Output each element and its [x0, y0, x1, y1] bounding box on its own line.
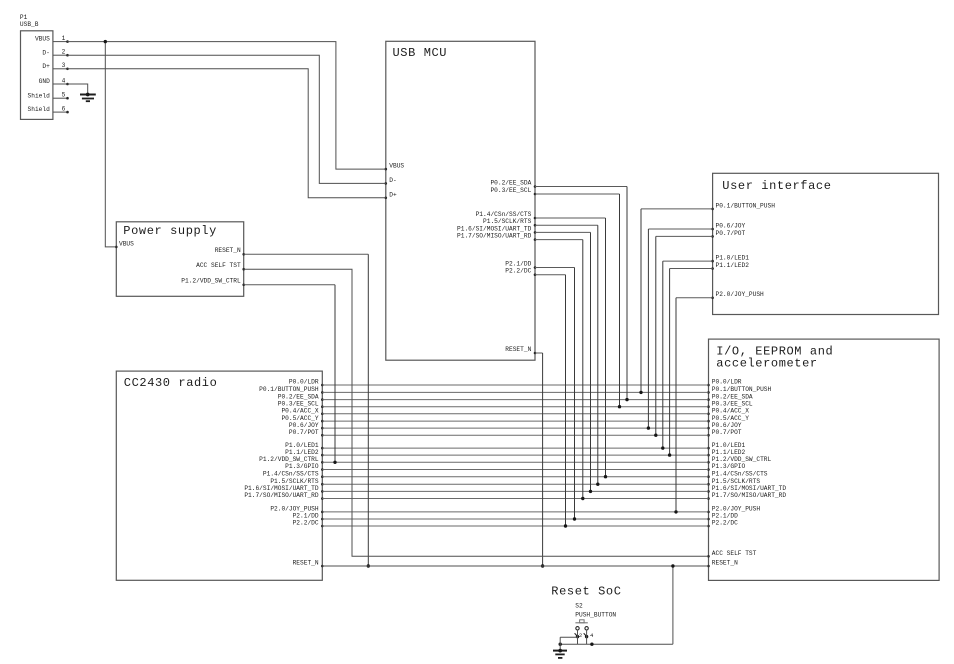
svg-text:P0.3/EE_SCL: P0.3/EE_SCL [278, 400, 319, 407]
wire P1.2/VDD_SW_CTRL from Power supply down to bus [244, 285, 337, 464]
svg-text:ACC SELF TST: ACC SELF TST [712, 550, 757, 557]
svg-text:P0.3/EE_SCL: P0.3/EE_SCL [490, 187, 531, 194]
pin P1.4/CSn/SS/CTS of CC2430 [263, 470, 324, 478]
svg-text:P0.4/ACC_X: P0.4/ACC_X [712, 408, 749, 415]
svg-text:accelerometer: accelerometer [716, 357, 817, 371]
pin P1.5/SCLK/RTS of CC2430 [270, 478, 323, 486]
svg-text:RESET_N: RESET_N [712, 560, 738, 567]
pin P0.2/EE_SDA of USB MCU [490, 179, 536, 187]
svg-text:D+: D+ [389, 191, 397, 198]
pin P1.7/SO/MISO/UART_RD of I/O block [707, 492, 786, 500]
pin P1.6/SI/MOSI/UART_TD of USB MCU [457, 225, 536, 233]
svg-text:Shield: Shield [28, 92, 51, 99]
wire P1.7/SO/MISO/UART_RD from USB MCU down to bus [535, 240, 585, 501]
wire P0.2/EE_SDA from USB MCU down to bus [535, 187, 629, 402]
pin D+ of USB MCU [385, 191, 398, 199]
ground symbol at push button [553, 649, 567, 658]
svg-text:P1.3/GPIO: P1.3/GPIO [712, 463, 746, 470]
svg-text:P0.7/POT: P0.7/POT [716, 230, 746, 237]
pin 3 D+ of P1 [42, 62, 68, 70]
pin P2.1/DD of USB MCU [505, 260, 536, 268]
svg-text:P0.6/JOY: P0.6/JOY [712, 422, 742, 429]
wire P2.0/JOY_PUSH from User interface down to bus [674, 298, 712, 514]
pin 4 GND of P1 [39, 77, 69, 85]
wire P1.5/SCLK/RTS from USB MCU down to bus [535, 225, 600, 486]
pin P1.2/VDD_SW_CTRL of CC2430 [259, 456, 323, 464]
pin P0.4/ACC_X of I/O block [707, 408, 749, 416]
svg-text:USB_B: USB_B [20, 21, 39, 28]
pin P0.0/LDR of I/O block [707, 379, 742, 387]
svg-text:P0.2/EE_SDA: P0.2/EE_SDA [490, 179, 531, 186]
pin 2 D- of P1 [42, 49, 68, 57]
wire P1.4/CSn/SS/CTS net between CC2430 and I/O block [322, 476, 708, 478]
svg-text:P2.2/DC: P2.2/DC [293, 520, 319, 527]
pin P0.1/BUTTON_PUSH of User interface [711, 202, 775, 210]
svg-text:P0.1/BUTTON_PUSH: P0.1/BUTTON_PUSH [712, 386, 772, 393]
svg-text:P1.7/SO/MISO/UART_RD: P1.7/SO/MISO/UART_RD [712, 492, 787, 499]
wire P1.1/LED2 net between CC2430 and I/O block [322, 454, 708, 456]
wire RESET_N from Power supply down to RESET_N net [244, 254, 370, 567]
wire D+ net: P1 pin3 to USB MCU [68, 69, 386, 198]
wire P1.2/VDD_SW_CTRL net between CC2430 and I/O block [322, 461, 708, 463]
pin P0.6/JOY of I/O block [707, 422, 742, 430]
pin P2.2/DC of CC2430 [293, 520, 324, 528]
svg-text:RESET_N: RESET_N [293, 560, 319, 567]
wire P2.1/DD net between CC2430 and I/O block [322, 518, 708, 520]
svg-text:D+: D+ [42, 63, 50, 70]
pin P0.3/EE_SCL of I/O block [707, 400, 753, 408]
pin P0.3/EE_SCL of USB MCU [490, 187, 536, 195]
svg-text:P0.0/LDR: P0.0/LDR [289, 379, 319, 386]
pin P0.7/POT of I/O block [707, 429, 742, 437]
wire P2.2/DC from USB MCU down to bus [535, 275, 567, 528]
block Power supply [116, 222, 243, 296]
svg-text:VBUS: VBUS [35, 36, 50, 43]
pin P1.4/CSn/SS/CTS of USB MCU [476, 211, 537, 219]
block CC2430 radio [116, 371, 322, 580]
wire P1.0/LED1 from User interface down to bus [661, 261, 713, 450]
pin P0.6/JOY of User interface [711, 222, 745, 230]
label Reset SoC [551, 584, 621, 598]
svg-text:P1.0/LED1: P1.0/LED1 [285, 442, 319, 449]
svg-text:P1.4/CSn/SS/CTS: P1.4/CSn/SS/CTS [712, 470, 768, 477]
svg-text:P1.6/SI/MOSI/UART_TD: P1.6/SI/MOSI/UART_TD [457, 225, 532, 232]
wire P1.6/SI/MOSI/UART_TD from USB MCU down to bus [535, 232, 592, 493]
pin P0.7/POT of CC2430 [289, 429, 324, 437]
wire P0.7/POT net between CC2430 and I/O block [322, 434, 708, 436]
pin VBUS of Power supply [115, 241, 134, 249]
svg-text:P1.0/LED1: P1.0/LED1 [716, 255, 750, 262]
svg-text:VBUS: VBUS [389, 163, 404, 170]
svg-text:P2.0/JOY_PUSH: P2.0/JOY_PUSH [270, 506, 319, 513]
wire P1.1/LED2 from User interface down to bus [668, 269, 713, 457]
wire P0.1/BUTTON_PUSH net between CC2430 and I/O block [322, 391, 708, 393]
block User interface [713, 173, 939, 314]
pin P2.1/DD of CC2430 [293, 513, 324, 521]
pin P1.6/SI/MOSI/UART_TD of I/O block [707, 485, 786, 493]
wire P0.2/EE_SDA net between CC2430 and I/O block [322, 399, 708, 401]
svg-text:USB MCU: USB MCU [393, 46, 448, 60]
pin P1.7/SO/MISO/UART_RD of USB MCU [457, 233, 536, 241]
svg-text:P0.0/LDR: P0.0/LDR [712, 379, 742, 386]
svg-text:P1.5/SCLK/RTS: P1.5/SCLK/RTS [712, 478, 761, 485]
svg-text:P1.1/LED2: P1.1/LED2 [712, 449, 746, 456]
block I/O EEPROM and accelerometer [709, 339, 940, 580]
pin P0.3/EE_SCL of CC2430 [278, 400, 324, 408]
pin 1 VBUS of P1 [35, 35, 69, 43]
pin P2.0/JOY_PUSH of User interface [711, 291, 764, 299]
svg-text:P2.2/DC: P2.2/DC [712, 520, 738, 527]
svg-text:CC2430 radio: CC2430 radio [124, 376, 218, 390]
pin P1.2/VDD_SW_CTRL of Power supply [181, 277, 245, 286]
pin RESET_N of CC2430 [293, 560, 324, 568]
svg-text:P0.3/EE_SCL: P0.3/EE_SCL [712, 400, 753, 407]
svg-text:P0.6/JOY: P0.6/JOY [289, 422, 319, 429]
wire P0.0/LDR net between CC2430 and I/O block [322, 384, 708, 386]
pin RESET_N of USB MCU [505, 346, 536, 354]
pin P0.1/BUTTON_PUSH of I/O block [707, 386, 771, 394]
pin P1.0/LED1 of User interface [711, 255, 749, 263]
pin P1.5/SCLK/RTS of I/O block [707, 478, 760, 486]
wire P0.4/ACC_X net between CC2430 and I/O block [322, 413, 708, 415]
pin 6 Shield of P1 [28, 106, 69, 114]
svg-text:S2: S2 [575, 602, 583, 609]
wire P1.5/SCLK/RTS net between CC2430 and I/O block [322, 483, 708, 485]
svg-text:P1: P1 [20, 14, 28, 21]
svg-text:1: 1 [62, 35, 66, 42]
pin P2.1/DD of I/O block [707, 513, 738, 521]
pin P0.0/LDR of CC2430 [289, 379, 324, 387]
svg-text:P0.1/BUTTON_PUSH: P0.1/BUTTON_PUSH [259, 386, 319, 393]
wire P1.6/SI/MOSI/UART_TD net between CC2430 and I/O block [322, 490, 708, 492]
pin P0.6/JOY of CC2430 [289, 422, 324, 430]
pin P1.3/GPIO of I/O block [707, 463, 745, 471]
svg-text:P0.1/BUTTON_PUSH: P0.1/BUTTON_PUSH [716, 202, 776, 209]
ground symbol at USB connector [80, 93, 96, 102]
svg-text:P0.5/ACC_Y: P0.5/ACC_Y [712, 415, 749, 422]
pin P0.1/BUTTON_PUSH of CC2430 [259, 386, 323, 394]
pin P1.3/GPIO of CC2430 [285, 463, 323, 471]
svg-text:P0.2/EE_SDA: P0.2/EE_SDA [712, 393, 753, 400]
svg-text:P1.2/VDD_SW_CTRL: P1.2/VDD_SW_CTRL [181, 277, 241, 284]
svg-text:P0.5/ACC_Y: P0.5/ACC_Y [281, 415, 318, 422]
wire P0.6/JOY from User interface down to bus [647, 229, 713, 430]
svg-text:P0.6/JOY: P0.6/JOY [716, 222, 746, 229]
svg-text:D-: D- [389, 177, 396, 184]
svg-text:P0.2/EE_SDA: P0.2/EE_SDA [278, 393, 319, 400]
svg-text:P0.7/POT: P0.7/POT [289, 429, 319, 436]
pin ACC SELF TST of I/O block [707, 550, 756, 558]
svg-text:5: 5 [62, 92, 66, 99]
pin P1.5/SCLK/RTS of USB MCU [483, 218, 536, 226]
wire P2.2/DC net between CC2430 and I/O block [322, 525, 708, 527]
svg-text:4: 4 [62, 77, 66, 84]
pin P2.2/DC of USB MCU [505, 268, 536, 276]
svg-text:RESET_N: RESET_N [215, 247, 241, 254]
wire P0.3/EE_SCL net between CC2430 and I/O block [322, 406, 708, 408]
svg-text:P1.2/VDD_SW_CTRL: P1.2/VDD_SW_CTRL [712, 456, 772, 463]
svg-text:P2.0/JOY_PUSH: P2.0/JOY_PUSH [712, 506, 761, 513]
svg-text:P1.3/GPIO: P1.3/GPIO [285, 463, 319, 470]
svg-text:3: 3 [62, 62, 66, 69]
pin P1.0/LED1 of CC2430 [285, 442, 323, 450]
pin P1.0/LED1 of I/O block [707, 442, 745, 450]
pin P1.2/VDD_SW_CTRL of I/O block [707, 456, 771, 464]
pin VBUS of USB MCU [385, 163, 405, 171]
pin RESET_N of Power supply [215, 247, 245, 256]
pin P1.4/CSn/SS/CTS of I/O block [707, 470, 768, 478]
svg-text:PUSH_BUTTON: PUSH_BUTTON [575, 612, 616, 619]
svg-text:P1.1/LED2: P1.1/LED2 [716, 262, 750, 269]
svg-text:ACC SELF TST: ACC SELF TST [196, 262, 241, 269]
svg-text:VBUS: VBUS [119, 241, 134, 248]
wire P0.6/JOY net between CC2430 and I/O block [322, 427, 708, 429]
pin D- of USB MCU [385, 177, 397, 185]
pin P0.4/ACC_X of CC2430 [281, 408, 323, 416]
svg-text:2: 2 [62, 49, 66, 56]
svg-text:Reset SoC: Reset SoC [551, 584, 621, 598]
svg-text:P2.2/DC: P2.2/DC [505, 268, 531, 275]
svg-text:P1.2/VDD_SW_CTRL: P1.2/VDD_SW_CTRL [259, 456, 319, 463]
svg-text:P1.6/SI/MOSI/UART_TD: P1.6/SI/MOSI/UART_TD [712, 485, 787, 492]
wire P1.3/GPIO net between CC2430 and I/O block [322, 469, 708, 471]
wire P0.5/ACC_Y net between CC2430 and I/O block [322, 420, 708, 422]
svg-text:P1.5/SCLK/RTS: P1.5/SCLK/RTS [270, 478, 319, 485]
wire P1.4/CSn/SS/CTS from USB MCU down to bus [535, 218, 607, 478]
svg-text:2: 2 [579, 632, 582, 639]
wire S2 pin 2 to ground [560, 630, 577, 651]
pin P2.2/DC of I/O block [707, 520, 738, 528]
pin P2.0/JOY_PUSH of I/O block [707, 506, 760, 514]
wire RESET_N net between CC2430 and I/O block [322, 565, 708, 567]
pin P0.5/ACC_Y of I/O block [707, 415, 749, 423]
svg-text:P2.1/DD: P2.1/DD [712, 513, 738, 520]
svg-text:P1.4/CSn/SS/CTS: P1.4/CSn/SS/CTS [476, 211, 532, 218]
pin P1.1/LED2 of User interface [711, 262, 749, 270]
svg-text:P1.7/SO/MISO/UART_RD: P1.7/SO/MISO/UART_RD [457, 233, 532, 240]
connector P1 USB_B [20, 14, 53, 119]
wire P0.1/BUTTON_PUSH from User interface down to bus [639, 209, 712, 394]
pin RESET_N of I/O block [707, 560, 738, 568]
pin P0.2/EE_SDA of I/O block [707, 393, 753, 401]
svg-text:P1.1/LED2: P1.1/LED2 [285, 449, 319, 456]
wire P1.7/SO/MISO/UART_RD net between CC2430 and I/O block [322, 498, 708, 500]
svg-text:Shield: Shield [28, 106, 51, 113]
pin P1.6/SI/MOSI/UART_TD of CC2430 [244, 485, 323, 493]
svg-text:P1.6/SI/MOSI/UART_TD: P1.6/SI/MOSI/UART_TD [244, 485, 319, 492]
pin P1.7/SO/MISO/UART_RD of CC2430 [244, 492, 323, 500]
svg-text:P1.0/LED1: P1.0/LED1 [712, 442, 746, 449]
svg-text:GND: GND [39, 78, 50, 85]
svg-text:P1.4/CSn/SS/CTS: P1.4/CSn/SS/CTS [263, 470, 319, 477]
pin P1.1/LED2 of I/O block [707, 449, 745, 457]
wire P2.0/JOY_PUSH net between CC2430 and I/O block [322, 511, 708, 513]
svg-text:P1.7/SO/MISO/UART_RD: P1.7/SO/MISO/UART_RD [244, 492, 319, 499]
wire D- net: P1 pin2 to USB MCU [68, 55, 386, 183]
pin 5 Shield of P1 [28, 92, 69, 100]
wire P0.7/POT from User interface down to bus [654, 236, 713, 437]
svg-text:P2.1/DD: P2.1/DD [505, 260, 531, 267]
svg-text:D-: D- [42, 49, 49, 56]
pin ACC SELF TST of Power supply [196, 262, 245, 271]
svg-text:User interface: User interface [722, 179, 831, 193]
wire ACC SELF TST net from Power supply to I/O block [244, 269, 709, 556]
wire P1.0/LED1 net between CC2430 and I/O block [322, 447, 708, 449]
svg-text:RESET_N: RESET_N [505, 346, 531, 353]
pin P0.2/EE_SDA of CC2430 [278, 393, 324, 401]
pin P0.7/POT of User interface [711, 230, 745, 238]
svg-text:Power supply: Power supply [123, 224, 217, 238]
svg-text:P0.7/POT: P0.7/POT [712, 429, 742, 436]
pin P2.0/JOY_PUSH of CC2430 [270, 506, 323, 514]
block U2 USB MCU [386, 41, 535, 360]
push-button S2 PUSH_BUTTON [575, 602, 617, 639]
svg-text:6: 6 [62, 106, 66, 113]
svg-text:P2.0/JOY_PUSH: P2.0/JOY_PUSH [716, 291, 765, 298]
svg-text:P1.5/SCLK/RTS: P1.5/SCLK/RTS [483, 218, 532, 225]
pin P1.1/LED2 of CC2430 [285, 449, 323, 457]
svg-text:P0.4/ACC_X: P0.4/ACC_X [281, 408, 318, 415]
wire P2.1/DD from USB MCU down to bus [535, 268, 576, 521]
pin P0.5/ACC_Y of CC2430 [281, 415, 323, 423]
wire GND net: P1 pin4 to ground [68, 84, 88, 95]
wire VBUS net: P1 pin1 to USB MCU and Power supply [68, 40, 386, 247]
wire S2 pin 4 to RESET_N [586, 630, 588, 644]
wire P0.3/EE_SCL from USB MCU down to bus [535, 194, 621, 408]
node RESET_N drop to push button [559, 564, 675, 646]
wire RESET_N from USB MCU down to RESET_N net [535, 353, 544, 568]
svg-text:P2.1/DD: P2.1/DD [293, 513, 319, 520]
